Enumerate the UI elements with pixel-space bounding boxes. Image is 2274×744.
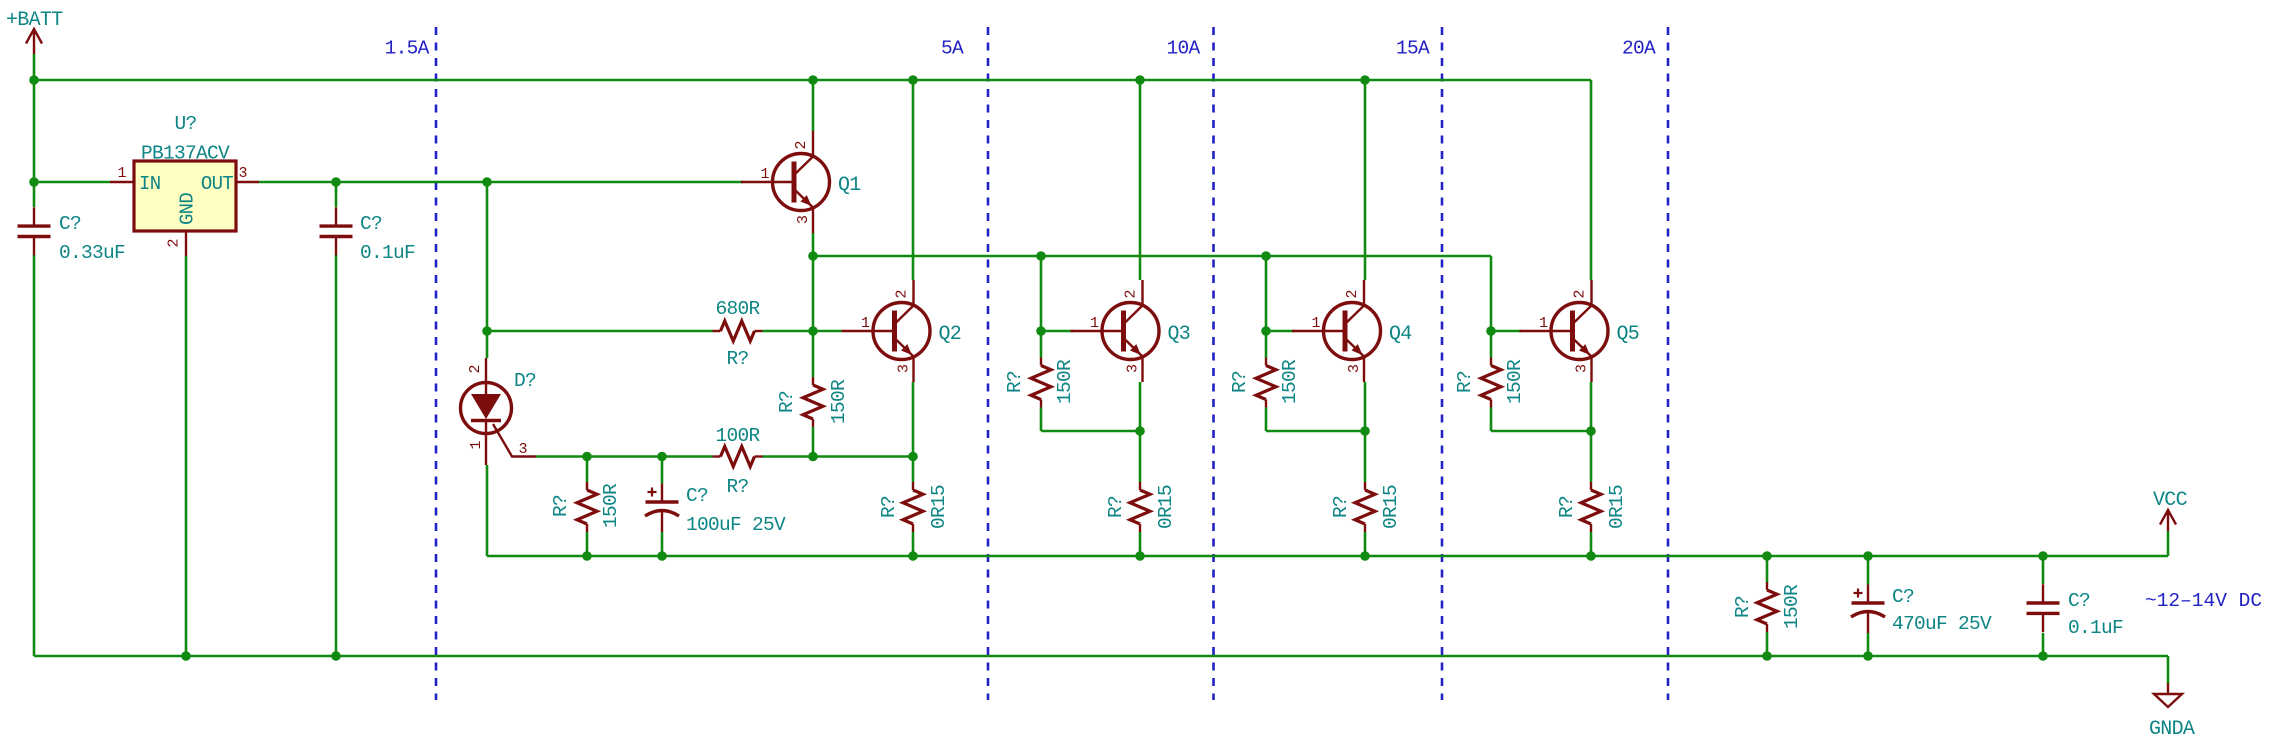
svg-text:R?: R? — [776, 391, 798, 413]
regulator U1 PB137ACV — [110, 113, 259, 256]
svg-text:1: 1 — [117, 165, 126, 182]
wire — [1040, 256, 1043, 331]
wire — [586, 532, 589, 556]
wire — [335, 182, 338, 207]
junction at 1591,556 — [1586, 551, 1596, 561]
svg-text:150R: 150R — [1054, 359, 1076, 404]
svg-text:100R: 100R — [715, 425, 760, 447]
svg-text:2: 2 — [166, 238, 183, 247]
svg-text:10A: 10A — [1166, 38, 1200, 60]
resistor R2 100R — [713, 425, 763, 498]
svg-text:+BATT: +BATT — [6, 9, 63, 32]
junction at 587,556 — [582, 551, 592, 561]
transistor Q1 — [741, 131, 861, 233]
wire — [1265, 256, 1268, 331]
wire — [486, 182, 489, 358]
junction at 186,656 — [181, 651, 191, 661]
wire — [1766, 632, 1769, 656]
svg-text:20A: 20A — [1622, 38, 1656, 60]
resistor R5 150R — [1004, 358, 1076, 408]
junction at 1767,656 — [1762, 651, 1772, 661]
junction at 587,456.5 — [582, 452, 592, 462]
svg-text:D?: D? — [514, 370, 536, 392]
svg-text:3: 3 — [238, 165, 247, 182]
junction at 1365,556 — [1360, 551, 1370, 561]
boundary dashed line 1.5A — [435, 27, 438, 700]
svg-text:R?: R? — [550, 495, 572, 517]
wire — [2042, 633, 2045, 656]
svg-text:R?: R? — [1732, 596, 1754, 618]
wire — [1491, 330, 1521, 333]
wire — [2167, 656, 2170, 683]
wire — [1364, 532, 1367, 556]
transistor Q2 — [842, 280, 962, 382]
wire — [1590, 80, 1593, 280]
svg-text:R?: R? — [726, 348, 748, 370]
junction at 1041,331 — [1036, 326, 1046, 336]
resistor R7 150R — [1454, 358, 1526, 408]
capacitor C4 470uF 25V — [1851, 585, 1992, 636]
wire — [487, 555, 2168, 558]
junction at 662,456.5 — [657, 452, 667, 462]
wire — [912, 382, 915, 482]
svg-text:680R: 680R — [715, 298, 760, 320]
wire — [259, 181, 743, 184]
svg-text:150R: 150R — [1504, 359, 1526, 404]
svg-text:C?: C? — [59, 213, 81, 235]
wire — [1265, 331, 1268, 358]
wire — [34, 655, 2168, 658]
svg-text:R?: R? — [1105, 496, 1127, 518]
junction at 1767,556 — [1762, 551, 1772, 561]
wire — [2042, 556, 2045, 584]
wire — [1364, 382, 1367, 482]
wire — [34, 181, 110, 184]
wire — [661, 457, 664, 484]
wire — [486, 465, 489, 556]
svg-text:0.33uF: 0.33uF — [59, 242, 125, 264]
svg-text:150R: 150R — [828, 379, 850, 424]
wire — [1590, 532, 1593, 556]
svg-text:3: 3 — [518, 441, 527, 458]
junction at 487,182 — [482, 177, 492, 187]
wire — [1867, 556, 1870, 585]
svg-text:3: 3 — [1574, 364, 1591, 373]
power symbol +BATT — [6, 9, 63, 54]
svg-text:R?: R? — [878, 496, 900, 518]
svg-text:0.1uF: 0.1uF — [2068, 617, 2123, 639]
svg-text:C?: C? — [1892, 586, 1914, 608]
svg-text:2: 2 — [1572, 289, 1589, 298]
svg-text:100uF 25V: 100uF 25V — [686, 514, 786, 536]
wire — [1490, 408, 1493, 432]
wire — [33, 255, 36, 656]
svg-text:IN: IN — [139, 173, 160, 195]
wire — [1490, 331, 1493, 358]
wire — [1139, 532, 1142, 556]
resistor R1 680R — [713, 298, 763, 370]
capacitor C2 0.1uF — [320, 207, 416, 264]
svg-text:0R15: 0R15 — [1155, 485, 1177, 529]
wire — [1040, 408, 1043, 432]
svg-text:470uF 25V: 470uF 25V — [1892, 613, 1992, 635]
wire — [1265, 408, 1268, 432]
wire — [536, 455, 713, 458]
svg-text:C?: C? — [686, 485, 708, 507]
junction at 813,331 — [808, 326, 818, 336]
transistor Q4 — [1292, 280, 1412, 382]
svg-text:PB137ACV: PB137ACV — [141, 143, 230, 165]
wire — [912, 532, 915, 556]
svg-text:1.5A: 1.5A — [385, 38, 430, 60]
transistor Q3 — [1071, 280, 1191, 382]
wire — [1040, 331, 1043, 358]
svg-text:1: 1 — [468, 440, 485, 449]
svg-text:GNDA: GNDA — [2149, 718, 2195, 741]
resistor R10 0R15 — [1330, 482, 1402, 532]
wire — [812, 233, 815, 377]
svg-text:3: 3 — [1125, 364, 1142, 373]
junction at 1591,431 — [1586, 426, 1596, 436]
junction at 813,456.5 — [808, 452, 818, 462]
svg-text:Q4: Q4 — [1389, 323, 1412, 346]
wire — [1041, 430, 1139, 433]
transistor Q5 — [1520, 280, 1640, 382]
junction at 487,331 — [482, 326, 492, 336]
junction at 2043,656 — [2038, 651, 2048, 661]
svg-text:1: 1 — [1539, 315, 1548, 332]
junction at 1140,80 — [1135, 75, 1145, 85]
resistor R3 150R — [550, 482, 622, 532]
svg-text:2: 2 — [793, 140, 810, 149]
junction at 1266,256 — [1261, 251, 1271, 261]
wire — [763, 455, 914, 458]
svg-text:2: 2 — [1344, 289, 1361, 298]
junction at 34,182 — [29, 177, 39, 187]
svg-text:R?: R? — [1556, 496, 1578, 518]
junction at 1365,80 — [1360, 75, 1370, 85]
wire — [335, 255, 338, 656]
wire — [812, 427, 815, 457]
svg-text:0R15: 0R15 — [1606, 485, 1628, 529]
svg-text:15A: 15A — [1396, 38, 1430, 60]
svg-text:Q2: Q2 — [939, 323, 962, 346]
power symbol VCC — [2153, 489, 2188, 531]
SCR D1 — [461, 358, 537, 465]
junction at 813,80 — [808, 75, 818, 85]
svg-text:1: 1 — [1090, 315, 1099, 332]
junction at 1140,556 — [1135, 551, 1145, 561]
svg-text:5A: 5A — [941, 38, 964, 60]
wire — [1266, 330, 1295, 333]
junction at 662,556 — [657, 551, 667, 561]
svg-text:150R: 150R — [600, 483, 622, 528]
wire — [33, 54, 36, 207]
wire — [586, 457, 589, 483]
svg-text:150R: 150R — [1279, 359, 1301, 404]
svg-text:2: 2 — [894, 289, 911, 298]
svg-text:2: 2 — [1123, 289, 1140, 298]
junction at 913,80 — [908, 75, 918, 85]
svg-text:C?: C? — [2068, 590, 2090, 612]
junction at 1041,256 — [1036, 251, 1046, 261]
svg-text:2: 2 — [467, 364, 484, 373]
svg-text:0R15: 0R15 — [1380, 485, 1402, 529]
wire — [912, 80, 915, 280]
svg-text:Q3: Q3 — [1168, 323, 1191, 346]
boundary dashed line 10A — [1212, 27, 1215, 700]
svg-text:1: 1 — [760, 166, 769, 183]
wire — [1139, 80, 1142, 280]
svg-text:0R15: 0R15 — [928, 485, 950, 529]
wire — [763, 330, 842, 333]
junction at 2043,556 — [2038, 551, 2048, 561]
resistor R4 150R — [776, 377, 850, 427]
wire — [1364, 80, 1367, 280]
capacitor C3 100uF 25V — [645, 484, 786, 537]
capacitor C5 0.1uF — [2027, 584, 2124, 639]
svg-text:R?: R? — [1330, 496, 1352, 518]
resistor R9 0R15 — [1105, 482, 1177, 532]
resistor R6 150R — [1229, 358, 1301, 408]
svg-text:3: 3 — [896, 364, 913, 373]
junction at 336,182 — [331, 177, 341, 187]
svg-text:R?: R? — [1454, 371, 1476, 393]
svg-text:3: 3 — [1346, 364, 1363, 373]
capacitor C1 0.33uF — [18, 207, 126, 264]
svg-text:C?: C? — [360, 213, 382, 235]
junction at 1266,331 — [1261, 326, 1271, 336]
svg-text:U?: U? — [174, 113, 196, 135]
wire — [1766, 556, 1769, 582]
junction at 1140,431 — [1135, 426, 1145, 436]
wire — [1590, 382, 1593, 482]
svg-text:Q5: Q5 — [1617, 323, 1640, 346]
wire — [661, 532, 664, 556]
junction at 1491,331 — [1486, 326, 1496, 336]
svg-text:1: 1 — [1311, 315, 1320, 332]
wire — [1867, 633, 1870, 656]
svg-text:R?: R? — [726, 476, 748, 498]
svg-text:~12–14V DC: ~12–14V DC — [2145, 590, 2262, 612]
junction at 34,80 — [29, 75, 39, 85]
svg-text:Q1: Q1 — [838, 174, 861, 197]
svg-text:0.1uF: 0.1uF — [360, 242, 415, 264]
wire — [1266, 430, 1364, 433]
junction at 913,556 — [908, 551, 918, 561]
wire — [1139, 382, 1142, 482]
wire — [34, 181, 36, 184]
power symbol GNDA — [2149, 683, 2195, 741]
wire — [1041, 330, 1073, 333]
wire — [812, 80, 815, 131]
boundary dashed line 5A — [987, 27, 990, 700]
boundary dashed line 20A — [1667, 27, 1670, 700]
svg-text:GND: GND — [177, 193, 199, 225]
wire — [34, 79, 1591, 82]
resistor R12 150R — [1732, 582, 1803, 632]
junction at 1868,556 — [1863, 551, 1873, 561]
wire — [2167, 531, 2170, 556]
svg-text:1: 1 — [861, 315, 870, 332]
wire — [813, 255, 1491, 258]
svg-text:VCC: VCC — [2153, 489, 2188, 512]
svg-text:R?: R? — [1004, 371, 1026, 393]
junction at 913,456.5 — [908, 452, 918, 462]
wire — [1490, 256, 1493, 331]
wire — [1491, 430, 1590, 433]
junction at 813,256 — [808, 251, 818, 261]
wire — [487, 330, 713, 333]
junction at 336,656 — [331, 651, 341, 661]
junction at 1365,431 — [1360, 426, 1370, 436]
svg-text:OUT: OUT — [201, 173, 233, 195]
junction at 1868,656 — [1863, 651, 1873, 661]
svg-text:150R: 150R — [1781, 584, 1803, 629]
svg-text:3: 3 — [795, 215, 812, 224]
wire — [185, 256, 188, 656]
resistor R8 0R15 — [878, 482, 950, 532]
svg-text:R?: R? — [1229, 371, 1251, 393]
boundary dashed line 15A — [1441, 27, 1444, 700]
resistor R11 0R15 — [1556, 482, 1628, 532]
